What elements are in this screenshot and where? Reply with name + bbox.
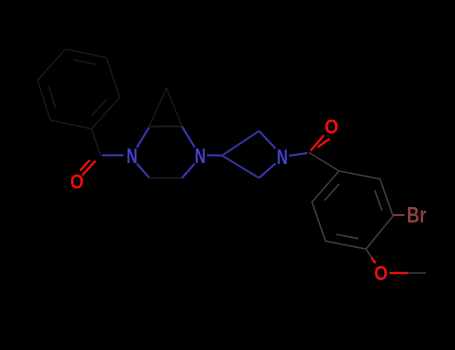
carbonyl C=O double bond (left benzoyl) — [80, 160, 95, 175]
svg-text:O: O — [374, 263, 388, 285]
carbonyl C=O double bond (right aroyl) — [311, 135, 330, 151]
svg-text:N: N — [127, 145, 138, 168]
benzene ring (right, 3-bromo-4-methoxyphenyl) — [312, 171, 393, 249]
wire: carbonyl C to piperazine N1 (amide C-N) — [102, 154, 124, 156]
wire: piperazine bottom edge C-C — [149, 177, 182, 179]
wire: phenyl ipso to carbonyl carbon — [92, 129, 101, 156]
bridge roof over piperazine — [149, 88, 182, 127]
wire: piperazine top-right C to N4 — [182, 127, 195, 148]
wire: azetidine N to carbonyl C (amide C-N) — [289, 153, 308, 156]
svg-text:N: N — [277, 146, 288, 169]
wire: azetidine C3 to C4 (bottom) — [222, 156, 259, 179]
wire: ring C3 to Br — [394, 214, 405, 216]
wire: N4 to azetidine C3 — [207, 154, 222, 156]
wire: azetidine C2 to N — [259, 131, 276, 149]
wire: piperazine bottom-right C to N4 — [182, 164, 195, 179]
svg-text:Br: Br — [407, 202, 427, 227]
wire: methoxy O to methyl C (oxygen half, red) — [390, 272, 409, 274]
wire: piperazine top edge C-C — [149, 126, 182, 128]
wire: methoxy O to methyl C (carbon half, faint) — [408, 272, 426, 274]
wire: ring C4 to methoxy O (oxygen half, red) — [372, 258, 376, 264]
wire: carbonyl C to benzene ring C1 — [309, 153, 339, 172]
wire: azetidine C3 to C2 (top) — [222, 131, 259, 156]
svg-text:O: O — [325, 117, 339, 139]
svg-text:O: O — [70, 172, 84, 194]
wire: ring C4 to methoxy O (carbon half, faint) — [366, 249, 372, 258]
wire: N1 to piperazine top-left C — [137, 128, 149, 148]
wire: azetidine C4 to N — [259, 164, 276, 179]
phenyl ring (left benzene) — [37, 49, 119, 129]
wire: N1 to piperazine bottom-left C — [137, 164, 149, 178]
svg-text:N: N — [195, 145, 206, 168]
